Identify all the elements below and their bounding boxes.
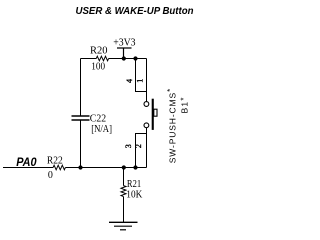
resistor R22 [53,165,65,170]
wire: R21 branch from bottom net [123,168,125,186]
wire: lower contact lead down to pins 3/2 box [146,128,148,134]
switch B1 actuator button knob [154,109,157,116]
svg-text:1: 1 [136,79,145,83]
svg-text:[N/A]: [N/A] [91,123,112,135]
svg-text:R20: R20 [90,44,108,56]
wire: top horizontal net (R20 to switch pin 1 corner) [109,58,147,60]
wire: bottom net from R22 to switch pin 2 corner [65,167,146,169]
switch B1 pins 4/1 connection box [136,59,147,92]
svg-text:R22: R22 [47,154,63,166]
svg-text:10K: 10K [126,188,142,200]
resistor R20 [96,56,108,61]
wire: left vertical rail from R20 down to C22 [80,59,82,117]
switch B1 upper contact circle [144,102,149,107]
node: junction dot at +3V3 stem [122,56,126,60]
wire: pin 1 lead down to upper contact [146,92,148,102]
resistor R21 [121,186,126,197]
wire: top horizontal net (left segment from rail corner to R20) [81,58,97,60]
capacitor C22 [72,116,90,120]
wire: vertical from C22 down to bottom net [80,120,82,168]
node: junction dot at switch pin 3 [133,165,137,169]
wire: R21 bottom to ground [123,197,125,222]
svg-text:B1*: B1* [179,98,189,114]
svg-text:3: 3 [124,144,133,148]
svg-text:4: 4 [125,79,134,83]
svg-text:+3V3: +3V3 [113,37,136,49]
svg-text:SW-PUSH-CMS*: SW-PUSH-CMS* [166,89,177,164]
svg-text:100: 100 [91,60,105,72]
switch B1 lower contact circle [144,123,149,128]
node: junction dot at C22 bottom [78,165,82,169]
node: junction dot at switch pin 4 [133,56,137,60]
node: junction dot at R21 top [122,165,126,169]
svg-text:0: 0 [48,169,53,181]
ground symbol [109,221,138,223]
svg-text:2: 2 [134,144,143,148]
switch B1 actuator bar [152,99,154,130]
svg-text:USER & WAKE-UP Button: USER & WAKE-UP Button [76,6,194,17]
switch B1 pins 3/2 connection box [136,134,147,168]
wire: bottom net from PA0 stub to R22 [3,167,53,169]
power +3V3 symbol [117,48,132,59]
